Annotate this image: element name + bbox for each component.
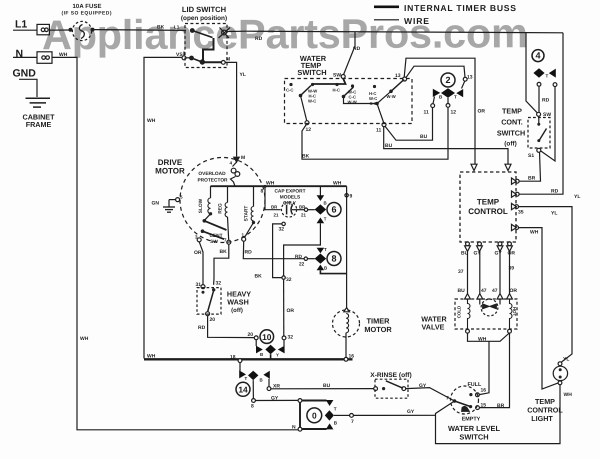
lid switch top pole arm — [191, 29, 213, 38]
WTS terminal 12 — [305, 121, 309, 125]
timer contact 8 finger T — [317, 248, 325, 254]
svg-text:5: 5 — [180, 195, 183, 200]
svg-text:WH: WH — [564, 392, 573, 398]
wire WH 9 rail down to timer motor — [346, 186, 348, 308]
svg-text:T: T — [454, 95, 457, 100]
timer contact 0 finger B — [326, 423, 334, 429]
svg-text:AppliancePartsPros.com: AppliancePartsPros.com — [42, 9, 528, 58]
x-rinse contact dot — [382, 387, 385, 390]
timer motor top arrowhead — [344, 308, 350, 312]
svg-text:TEMP: TEMP — [477, 198, 500, 207]
temp control RD terminal — [515, 192, 519, 196]
reg winding — [225, 186, 229, 240]
svg-text:BU: BU — [420, 134, 428, 140]
x-rinse wiper arm (open) — [386, 381, 403, 388]
timer contact 10 terminal 20 — [254, 336, 258, 340]
svg-text:WASH: WASH — [227, 298, 249, 307]
water temp switch common bar — [312, 79, 346, 85]
svg-text:GY: GY — [474, 251, 482, 257]
svg-text:W-W: W-W — [348, 100, 357, 105]
svg-text:RD: RD — [551, 189, 559, 195]
svg-text:START: START — [244, 206, 250, 222]
temp cont switch SW terminal — [537, 112, 541, 116]
terminal L1 — [13, 24, 49, 34]
svg-text:OR: OR — [194, 250, 202, 256]
centrifugal switch arm 3-7 — [197, 219, 226, 242]
wire RD heavy wash 20 to contact 10 — [208, 316, 255, 338]
wire cap: motor 8 down to capacitor — [265, 187, 281, 210]
timer contact 6 finger B stem — [319, 186, 321, 195]
contact0 bottom-left terminal N — [298, 427, 302, 431]
timer motor (dashed circle) — [333, 310, 360, 337]
svg-text:(IF SO EQUIPPED): (IF SO EQUIPPED) — [62, 11, 112, 17]
valve cold solenoid coil — [468, 299, 471, 329]
svg-text:CONT.: CONT. — [501, 118, 523, 127]
wire lid switch to RD top wire — [227, 30, 248, 32]
timer contact 6 diamond — [315, 204, 327, 214]
timer contact 10 finger Y — [278, 340, 285, 354]
svg-text:SLOW: SLOW — [198, 198, 204, 213]
svg-text:B: B — [324, 201, 327, 206]
svg-text:WH: WH — [478, 337, 487, 343]
svg-text:0: 0 — [312, 411, 317, 421]
svg-text:VS: VS — [176, 52, 183, 58]
lid switch VS terminal — [182, 52, 186, 60]
svg-text:21: 21 — [301, 213, 306, 218]
svg-text:32: 32 — [279, 227, 285, 233]
WLS full contact 16 — [469, 393, 479, 397]
svg-text:C-C: C-C — [370, 101, 377, 106]
svg-text:H-C: H-C — [333, 88, 340, 93]
internal timer buss (bottom) — [144, 358, 353, 360]
wire BK motor 7 to heavy wash 32 — [214, 244, 229, 285]
svg-text:32: 32 — [286, 277, 292, 283]
svg-text:B: B — [260, 378, 263, 383]
svg-text:INTERNAL TIMER BUSS: INTERNAL TIMER BUSS — [404, 3, 516, 13]
svg-text:(off): (off) — [231, 307, 243, 314]
svg-text:OR: OR — [287, 308, 295, 314]
svg-text:RD: RD — [245, 250, 253, 256]
wire OR net32 to contact 10 — [283, 279, 285, 336]
svg-text:M: M — [226, 57, 230, 63]
wire RD right rail to temp control — [519, 33, 563, 194]
timer contact 4 finger T — [549, 69, 556, 78]
svg-text:GY: GY — [495, 251, 503, 257]
x-rinse right terminal — [402, 387, 406, 391]
WTS section1 contact C-C — [289, 83, 292, 86]
svg-text:ONLY: ONLY — [283, 201, 297, 207]
temp cont switch contacts — [537, 116, 546, 142]
svg-text:MOTOR: MOTOR — [364, 325, 392, 334]
svg-text:13: 13 — [467, 75, 473, 81]
temp control right terminals — [512, 178, 517, 231]
timer contact 4 diamond — [533, 68, 544, 78]
wire RD branch to water temp switch SW — [341, 32, 355, 79]
svg-text:B: B — [439, 95, 443, 100]
valve flow washer (dashed circle) — [480, 299, 500, 316]
wire BU: WTS 11 to contact2 terminal 11 — [385, 107, 433, 140]
svg-text:RD: RD — [255, 36, 263, 42]
svg-text:BK: BK — [302, 154, 310, 160]
timer contact 8 input terminal 22 — [304, 257, 307, 260]
heavy wash terminal 20 — [206, 312, 210, 316]
lid switch M terminal — [221, 61, 225, 65]
temp control BR terminal — [515, 179, 519, 183]
wire GY 2 temp control to valve — [499, 251, 501, 294]
WTS section2 contact H-C — [335, 83, 338, 86]
svg-text:TEMP: TEMP — [502, 107, 522, 116]
drive motor body (dashed circle) — [180, 158, 265, 243]
svg-text:COLD: COLD — [457, 306, 462, 318]
wire contact6 T down to net 32 — [284, 223, 321, 276]
timer contact 8 finger B — [317, 265, 325, 271]
svg-text:14: 14 — [238, 384, 248, 394]
temp control WH terminal — [515, 226, 519, 230]
svg-text:15: 15 — [481, 403, 487, 409]
lid switch bottom pole arm — [186, 56, 221, 64]
timer contact 2 terminal 12 — [446, 104, 450, 108]
svg-text:WIRE: WIRE — [404, 16, 429, 26]
svg-text:BU: BU — [385, 143, 393, 149]
svg-text:10A FUSE: 10A FUSE — [73, 3, 102, 10]
svg-text:L1: L1 — [15, 19, 27, 31]
wire capacitor to contact 6 — [297, 208, 315, 211]
wire contact4 T to S1 — [541, 87, 556, 162]
svg-text:W-C: W-C — [308, 99, 316, 104]
svg-text:4: 4 — [230, 161, 233, 166]
legend wire — [374, 19, 399, 21]
svg-text:GND: GND — [13, 68, 37, 80]
svg-text:B: B — [260, 352, 263, 357]
ground symbol cabinet frame — [19, 79, 50, 107]
wire WH temp control to light — [519, 228, 559, 389]
wire BR S1 to temp control — [519, 152, 541, 181]
timer contact 6 finger T — [317, 218, 325, 224]
terminal 16 — [344, 357, 348, 361]
svg-text:S1: S1 — [528, 153, 534, 159]
wire OR 39 temp control to valve — [509, 251, 511, 294]
drive motor M terminal arrowhead — [234, 157, 239, 162]
svg-text:T: T — [334, 407, 337, 412]
svg-text:MODELS: MODELS — [280, 195, 301, 201]
wire WH box: VS to left rail down to timer buss — [144, 57, 182, 358]
svg-text:WH: WH — [333, 181, 342, 187]
svg-text:9: 9 — [350, 194, 353, 200]
terminal 9 — [345, 194, 348, 197]
svg-text:12: 12 — [306, 127, 312, 133]
timer contact 10 (circle) — [260, 330, 274, 344]
water level switch body (dashed circle) — [451, 386, 479, 414]
svg-text:BK: BK — [157, 25, 165, 31]
svg-text:WH: WH — [80, 336, 89, 342]
legend internal timer buss — [374, 6, 399, 9]
timer contact 2 finger T — [456, 89, 463, 97]
contact 10 stem to buss — [270, 354, 272, 359]
temp control box — [460, 172, 516, 242]
svg-text:20: 20 — [248, 332, 254, 338]
contact4 terminals — [537, 82, 557, 86]
svg-text:8: 8 — [261, 189, 264, 195]
svg-text:VALVE: VALVE — [422, 323, 445, 332]
timer contact 6 finger B — [317, 195, 325, 201]
svg-text:13: 13 — [395, 73, 401, 79]
timer contact 10 finger B — [256, 340, 263, 354]
svg-text:WH: WH — [147, 354, 156, 360]
svg-text:1: 1 — [242, 233, 245, 238]
svg-text:SWITCH: SWITCH — [297, 68, 326, 77]
svg-text:WH: WH — [147, 118, 156, 124]
wire timer motor to buss 16 — [345, 333, 347, 358]
wire RD motor 1 to contact 8 — [243, 241, 304, 259]
svg-text:MOTOR: MOTOR — [155, 167, 185, 176]
heavy wash wiper arm — [202, 290, 214, 311]
svg-text:GY: GY — [407, 409, 415, 415]
svg-text:T: T — [324, 217, 327, 222]
timer contact 8 (circle) — [327, 252, 341, 266]
svg-text:Y: Y — [276, 353, 279, 358]
wire terminal to diamond8 — [308, 258, 315, 260]
lid switch open contact — [219, 28, 231, 39]
timer contact 6 (circle) — [327, 203, 341, 217]
svg-text:4: 4 — [535, 51, 540, 61]
svg-text:16: 16 — [481, 388, 487, 394]
motor terminal 7 — [227, 240, 231, 244]
wire GY terminal7 to water level switch — [353, 414, 435, 416]
timer contact 14 (circle) — [236, 382, 250, 396]
wire to bottom-left of WLS — [436, 385, 561, 444]
slow winding — [205, 186, 213, 220]
timer contact 10 diamond — [265, 345, 276, 354]
svg-text:3: 3 — [195, 235, 198, 240]
wire GY temp control to valve — [479, 251, 481, 294]
svg-text:7: 7 — [224, 238, 227, 243]
timer contact 0 (circle) — [307, 408, 322, 423]
valve top terminals (triangles) — [465, 294, 513, 299]
valve bottom terminals — [466, 329, 512, 333]
wire WH valve bottom — [468, 333, 510, 342]
svg-text:21: 21 — [274, 213, 279, 218]
timer contact 0 finger T — [326, 400, 334, 406]
svg-text:BR: BR — [271, 204, 278, 209]
wire contact0 diamond to terminal 7 — [334, 414, 350, 416]
svg-text:BK: BK — [255, 274, 263, 280]
fuse F1 (10A, if so equipped) — [72, 21, 91, 40]
timer contact 0 diamond — [325, 410, 334, 420]
lid switch link strap — [203, 38, 214, 62]
svg-text:OVERLOAD: OVERLOAD — [198, 171, 226, 177]
svg-text:SW: SW — [210, 239, 218, 245]
svg-text:OR: OR — [510, 288, 518, 294]
heavy wash contact 31 — [201, 285, 205, 289]
svg-text:BR: BR — [299, 204, 306, 209]
svg-text:11: 11 — [424, 110, 430, 116]
svg-text:12: 12 — [451, 110, 457, 116]
temp cont switch box — [528, 118, 550, 149]
wire L1 to fuse — [49, 28, 94, 31]
motor terminal 5 and GN ground — [163, 198, 180, 213]
svg-text:CAP EXPORT: CAP EXPORT — [274, 189, 305, 195]
svg-text:BU: BU — [323, 383, 331, 389]
svg-text:CENT: CENT — [209, 233, 222, 239]
WTS terminal 13 — [403, 77, 407, 81]
x-rinse left terminal — [374, 387, 378, 391]
wire YL 35 to temp control light — [519, 207, 573, 362]
temp control 35 terminal — [515, 205, 519, 209]
temp cont switch S1 terminal — [537, 148, 541, 152]
wire M to YL drop — [225, 62, 236, 156]
terminal 8 — [252, 399, 256, 403]
svg-text:2: 2 — [445, 75, 450, 85]
svg-text:WH: WH — [59, 52, 68, 58]
timer contact 14 finger B — [263, 371, 269, 379]
svg-text:L1: L1 — [174, 25, 180, 30]
wire GY x-rinse to water level switch — [406, 388, 455, 401]
svg-text:B: B — [334, 421, 338, 426]
wire OR: WTS 13 up over to temp control — [404, 58, 475, 164]
svg-text:FRAME: FRAME — [26, 120, 52, 129]
svg-text:47: 47 — [492, 288, 498, 294]
temp control top terminals — [471, 164, 511, 170]
wire BK: WTS 12 to contact2 terminal 12 — [302, 107, 448, 159]
wire RD contact4 to SW — [538, 86, 540, 112]
wire fuse to lid switch (BK) — [94, 29, 186, 32]
svg-text:SW: SW — [543, 112, 551, 118]
svg-text:RD: RD — [353, 46, 361, 52]
timer contact 2 finger B — [433, 89, 440, 97]
net 32 junction — [282, 276, 285, 279]
WTS section1 contact W-W — [311, 83, 314, 86]
temp control bottom terminals — [465, 242, 513, 251]
motor internal buss WH — [211, 185, 347, 187]
wire valve to WLS 16 — [479, 341, 489, 394]
junction motor terminal 8 — [264, 185, 267, 188]
svg-text:N: N — [16, 48, 24, 60]
svg-text:YL: YL — [240, 72, 246, 78]
svg-text:BK: BK — [220, 249, 228, 255]
contact2 stems — [433, 81, 465, 104]
svg-text:GN: GN — [152, 201, 160, 207]
heavy wash switch box — [197, 288, 221, 315]
svg-text:OR: OR — [478, 109, 486, 115]
svg-text:OR: OR — [508, 251, 516, 257]
terminal 7 — [350, 414, 354, 418]
svg-text:HOT: HOT — [512, 307, 517, 317]
terminal N — [13, 52, 52, 64]
start winding — [245, 186, 256, 237]
WTS section2 contact — [351, 84, 354, 87]
timer contact 2 (circle) — [441, 73, 455, 87]
svg-text:RD: RD — [295, 254, 302, 260]
timer contact 14 diamond — [248, 371, 258, 380]
lid switch S1 box — [185, 24, 227, 68]
WTS section2 wiper arm — [342, 87, 377, 104]
WLS empty contact 15 — [469, 405, 479, 410]
svg-text:22: 22 — [299, 262, 305, 268]
wire RD main top — [247, 31, 563, 33]
capacitor 21 (cap export models only) — [281, 202, 296, 217]
svg-text:CONTROL: CONTROL — [468, 207, 508, 216]
WTS section1 wiper arm — [299, 86, 311, 122]
svg-text:35: 35 — [518, 210, 524, 216]
wire GY terminal8 to contact 0 box — [255, 399, 298, 401]
svg-text:GY: GY — [271, 396, 279, 402]
centrifugal switch arm 1 — [242, 237, 246, 241]
contact0 top-left terminal — [298, 399, 302, 403]
svg-text:8: 8 — [251, 404, 254, 410]
valve hot solenoid coil — [510, 299, 513, 329]
wire OR motor 3 to heavy wash 31 — [199, 242, 203, 285]
terminal 32 stub — [273, 222, 286, 277]
svg-text:BR: BR — [497, 403, 505, 409]
svg-text:X-RINSE (off): X-RINSE (off) — [370, 372, 411, 379]
svg-text:EMPTY: EMPTY — [462, 417, 481, 423]
svg-text:8: 8 — [331, 254, 336, 264]
timer contact 8 diamond — [315, 254, 327, 264]
svg-text:37: 37 — [458, 269, 464, 275]
contact14 B stem to XR — [268, 379, 270, 387]
wire BU XR to x-rinse switch — [271, 388, 374, 390]
svg-text:18: 18 — [230, 355, 236, 361]
timer contact 2 terminal 11 — [431, 104, 435, 108]
temp control light bulb — [553, 362, 567, 385]
wire N (WH) down left side and along bottom — [52, 57, 299, 429]
svg-text:GY: GY — [419, 383, 427, 389]
svg-text:YL: YL — [563, 357, 569, 363]
water temp switch box — [285, 79, 413, 124]
svg-text:T: T — [245, 376, 248, 381]
svg-text:31: 31 — [196, 282, 202, 288]
svg-text:32: 32 — [216, 281, 222, 287]
x-rinse switch box — [375, 379, 408, 398]
water valve box — [455, 299, 517, 329]
svg-text:SW: SW — [333, 73, 341, 79]
timer contact 4 (circle) — [532, 50, 544, 62]
svg-text:T: T — [324, 247, 327, 252]
svg-text:REG: REG — [218, 203, 224, 214]
svg-text:SWITCH: SWITCH — [459, 433, 488, 442]
svg-text:N: N — [292, 425, 296, 431]
svg-text:XR: XR — [273, 384, 280, 390]
svg-text:PROTECTOR: PROTECTOR — [197, 178, 228, 184]
svg-text:32: 32 — [288, 335, 294, 341]
svg-text:(off): (off) — [504, 141, 516, 148]
svg-text:20: 20 — [210, 317, 216, 323]
svg-text:(open position): (open position) — [181, 15, 227, 22]
svg-text:7: 7 — [446, 396, 449, 402]
svg-text:T: T — [546, 74, 549, 79]
svg-text:BR: BR — [528, 176, 536, 182]
svg-text:SWITCH: SWITCH — [497, 129, 525, 138]
svg-text:10: 10 — [262, 332, 272, 342]
svg-text:RD: RD — [542, 98, 550, 104]
svg-text:RD: RD — [198, 325, 206, 331]
svg-text:47: 47 — [481, 288, 487, 294]
svg-text:LID SWITCH: LID SWITCH — [182, 5, 226, 14]
svg-text:16: 16 — [349, 354, 355, 360]
terminal 18 — [238, 359, 242, 363]
wire BU: WTS 11 to temp control — [384, 126, 508, 164]
contact14 diamond stem to terminal 8 — [252, 380, 254, 399]
svg-text:LIGHT: LIGHT — [531, 414, 553, 423]
WLS pressure dome — [462, 406, 470, 411]
svg-text:YL: YL — [574, 194, 580, 200]
timer contact 10 terminal 32 — [282, 336, 286, 340]
wire WTS 13 to contact2 T terminal 13 — [406, 66, 465, 78]
timer contact 14 finger T — [239, 370, 246, 378]
svg-text:WH: WH — [530, 230, 539, 236]
wire BR WLS 15 up to valve — [479, 333, 509, 407]
svg-text:6: 6 — [331, 205, 336, 215]
